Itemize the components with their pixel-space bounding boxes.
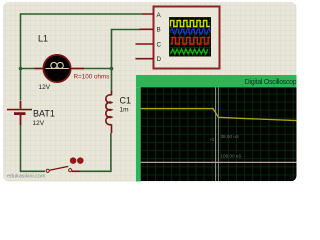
svg-text:C1: C1 xyxy=(120,95,132,105)
mini waveform channel B (blue sine) xyxy=(171,29,211,35)
scope cursor line 1 xyxy=(215,87,217,181)
switch actuator dot right xyxy=(77,157,84,164)
mini waveform channel C (red square) xyxy=(171,38,211,45)
oscilloscope mini screen xyxy=(169,17,211,57)
wire: switch to inductor bottom xyxy=(80,133,111,172)
scope window left frame xyxy=(136,87,141,181)
scope pin D stub xyxy=(136,58,154,60)
switch SW1 xyxy=(46,166,80,172)
digital oscilloscope window title bar xyxy=(136,75,300,87)
svg-text:+0: +0 xyxy=(210,137,215,142)
scope baseline (pink horizontal line) xyxy=(141,161,297,163)
junction: battery/lamp node xyxy=(19,67,23,71)
oscilloscope component U1 body xyxy=(154,7,220,69)
lamp L1 right pin xyxy=(71,68,84,70)
svg-text:L1: L1 xyxy=(38,33,48,43)
svg-text:100.00 uS: 100.00 uS xyxy=(221,153,242,158)
wire: left vertical from top corner down to battery + xyxy=(20,13,22,100)
scope trace channel A (yellow) xyxy=(141,109,297,121)
svg-text:1m: 1m xyxy=(120,106,129,113)
schematic sheet background xyxy=(3,2,297,182)
lamp L1 body xyxy=(43,55,70,82)
scope cursor line 2 xyxy=(217,87,219,181)
svg-text:R=100 ohms: R=100 ohms xyxy=(74,73,110,80)
svg-text:D: D xyxy=(157,56,162,63)
wire: lamp right pin to node B xyxy=(84,68,112,70)
scope window screen background xyxy=(141,87,300,181)
svg-text:12V: 12V xyxy=(39,84,51,91)
wire: node B down to inductor top xyxy=(111,69,113,92)
svg-text:38.00 uS: 38.00 uS xyxy=(221,134,239,139)
svg-text:BAT1: BAT1 xyxy=(33,109,55,119)
svg-text:C: C xyxy=(157,41,162,48)
wire: node B up and right to scope pin B xyxy=(112,30,141,69)
mini waveform channel A (yellow square) xyxy=(171,21,211,27)
scope pin A stub xyxy=(142,13,154,15)
inductor C1 xyxy=(106,91,112,133)
scope window screen grid xyxy=(141,87,300,181)
svg-text:edukasikini.com: edukasikini.com xyxy=(7,173,46,179)
junction: lamp/inductor/scope-B node xyxy=(110,67,114,71)
wire: battery+ branch to lamp left pin xyxy=(21,68,35,70)
scope pin B stub xyxy=(140,28,154,30)
svg-text:B: B xyxy=(157,27,161,34)
wire: battery- down and right to switch xyxy=(21,125,46,172)
scope pin C stub xyxy=(136,43,154,45)
svg-text:Digital Oscilloscope: Digital Oscilloscope xyxy=(245,79,300,86)
svg-text:12V: 12V xyxy=(33,120,45,127)
switch actuator dot left xyxy=(70,157,77,164)
lamp L1 left pin xyxy=(35,68,44,70)
mini waveform channel D (green zigzag) xyxy=(171,49,208,54)
battery BAT1 xyxy=(7,101,32,125)
wire: top net from battery+ to scope pin A xyxy=(21,13,143,15)
